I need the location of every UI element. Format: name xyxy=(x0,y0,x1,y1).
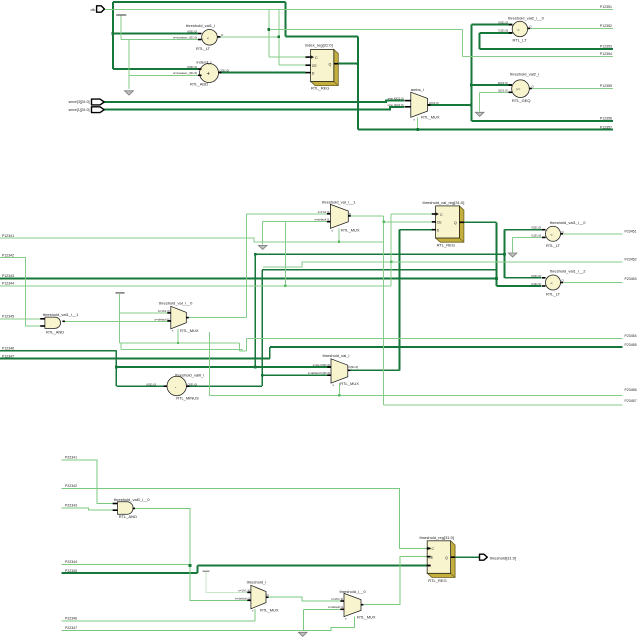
svg-text:P22346: P22346 xyxy=(65,617,77,621)
svg-text:P12357: P12357 xyxy=(600,125,612,129)
svg-text:CE: CE xyxy=(437,221,443,225)
svg-text:threshold_val2_i: threshold_val2_i xyxy=(510,72,539,77)
svg-text:threshold_val_reg[31:0]: threshold_val_reg[31:0] xyxy=(423,200,465,205)
svg-text:P22343: P22343 xyxy=(65,504,77,508)
svg-text:RTL_GEQ: RTL_GEQ xyxy=(512,98,531,103)
svg-text:b=default I1: b=default I1 xyxy=(155,317,171,321)
svg-text:P12347: P12347 xyxy=(2,354,14,358)
svg-text:P12341: P12341 xyxy=(2,234,14,238)
svg-text:I0[31:0]: I0[31:0] xyxy=(498,21,508,25)
svg-text:P12355: P12355 xyxy=(600,84,612,88)
svg-text:P12354: P12354 xyxy=(600,52,612,56)
svg-text:I1[31:0]: I1[31:0] xyxy=(531,233,541,237)
svg-text:CE: CE xyxy=(312,64,318,68)
svg-text:s=1'b1 I0: s=1'b1 I0 xyxy=(238,589,250,593)
svg-text:>=: >= xyxy=(516,87,521,92)
svg-text:C: C xyxy=(440,213,443,217)
svg-text:P12353: P12353 xyxy=(600,44,612,48)
svg-text:threshold_val1_i__1: threshold_val1_i__1 xyxy=(43,312,80,317)
svg-text:P12356: P12356 xyxy=(600,117,612,121)
svg-text:threshold_val1_i: threshold_val1_i xyxy=(186,23,215,28)
svg-text:RTL_MUX: RTL_MUX xyxy=(341,227,360,232)
svg-text:O[31:0]: O[31:0] xyxy=(220,68,230,72)
svg-text:RTL_MUX: RTL_MUX xyxy=(180,328,199,333)
svg-text:RTL_MUX: RTL_MUX xyxy=(260,608,279,613)
svg-text:P12352: P12352 xyxy=(600,24,612,28)
svg-text:s=1'b1 I0: s=1'b1 I0 xyxy=(318,210,330,214)
svg-text:RTL_AND: RTL_AND xyxy=(119,514,137,519)
svg-text:index3_i: index3_i xyxy=(197,59,212,64)
svg-text:threshold_i: threshold_i xyxy=(247,579,267,584)
svg-text:+: + xyxy=(207,72,211,78)
svg-text:P12346: P12346 xyxy=(2,347,14,351)
svg-text:O[31:0]: O[31:0] xyxy=(188,382,198,386)
svg-text:smce[1][31:0]: smce[1][31:0] xyxy=(68,108,89,112)
svg-text:P22342: P22342 xyxy=(65,484,77,488)
svg-text:I0[31:0]: I0[31:0] xyxy=(146,382,156,386)
svg-text:RTL_REG: RTL_REG xyxy=(311,86,329,91)
svg-text:index_reg[31:0]: index_reg[31:0] xyxy=(305,42,333,47)
svg-text:RTL_LT: RTL_LT xyxy=(513,38,528,43)
svg-text:P23456: P23456 xyxy=(625,388,637,392)
svg-text:s=te I0[31:0]: s=te I0[31:0] xyxy=(388,97,404,101)
svg-text:P23454: P23454 xyxy=(625,334,637,338)
svg-text:C: C xyxy=(315,56,318,60)
svg-text:Q: Q xyxy=(445,556,448,560)
svg-text:D: D xyxy=(312,71,315,75)
svg-text:smce[3][31:0]: smce[3][31:0] xyxy=(68,100,89,104)
svg-text:P22341: P22341 xyxy=(65,456,77,460)
svg-text:I0[31:0]: I0[31:0] xyxy=(498,81,508,85)
svg-text:RTL_MUX: RTL_MUX xyxy=(421,114,440,119)
svg-text:threshold_val1_i__0: threshold_val1_i__0 xyxy=(550,220,587,225)
svg-text:I1[31:0]: I1[31:0] xyxy=(498,29,508,33)
svg-text:RTL_AND: RTL_AND xyxy=(46,329,64,334)
svg-text:s=default I1: s=default I1 xyxy=(314,218,329,222)
svg-text:P12343: P12343 xyxy=(2,274,14,278)
svg-text:s=default I1: s=default I1 xyxy=(328,605,343,609)
svg-text:P23452: P23452 xyxy=(625,258,637,262)
svg-text:P23451: P23451 xyxy=(625,229,637,233)
svg-text:Q: Q xyxy=(329,63,332,67)
svg-text:s=default I1: s=default I1 xyxy=(235,597,250,601)
svg-text:clk: clk xyxy=(91,7,96,12)
svg-text:RTL_ADD: RTL_ADD xyxy=(190,82,208,87)
svg-text:I0[31:0]: I0[31:0] xyxy=(187,65,197,69)
svg-text:C: C xyxy=(432,547,435,551)
svg-text:threshold_i__0: threshold_i__0 xyxy=(340,589,367,594)
svg-text:I0[31:0]: I0[31:0] xyxy=(187,29,197,33)
svg-text:D: D xyxy=(437,228,440,232)
svg-text:ambs_i: ambs_i xyxy=(411,87,424,92)
svg-text:RTL_REG: RTL_REG xyxy=(428,578,446,583)
svg-text:RTL_LT: RTL_LT xyxy=(196,46,211,51)
svg-text:threshold_val0_i__0: threshold_val0_i__0 xyxy=(114,497,151,502)
svg-text:RTL_REG: RTL_REG xyxy=(437,243,455,248)
svg-text:s=1'b1 I0: s=1'b1 I0 xyxy=(331,597,343,601)
svg-text:threshold_val_i__1: threshold_val_i__1 xyxy=(322,199,356,204)
svg-text:P22347: P22347 xyxy=(65,626,77,630)
svg-text:threshold_reg[31:0]: threshold_reg[31:0] xyxy=(420,535,454,540)
svg-text:threshold_val_i__0: threshold_val_i__0 xyxy=(159,301,193,306)
svg-text:threshold[31:0]: threshold[31:0] xyxy=(490,555,516,560)
svg-text:Q: Q xyxy=(454,221,457,225)
svg-text:w=coeaser_r[31:0]: w=coeaser_r[31:0] xyxy=(173,71,197,75)
svg-text:I0[31:0]: I0[31:0] xyxy=(531,226,541,230)
svg-text:RTL_MINUS: RTL_MINUS xyxy=(176,396,199,401)
svg-text:O[31:0]: O[31:0] xyxy=(349,365,359,369)
svg-text:I0[31:0]: I0[31:0] xyxy=(531,274,541,278)
svg-text:P22344: P22344 xyxy=(65,560,77,564)
svg-text:I1[31:0]: I1[31:0] xyxy=(498,88,508,92)
svg-text:threshold_val_i: threshold_val_i xyxy=(323,353,350,358)
svg-text:threshold_val1_i__2: threshold_val1_i__2 xyxy=(550,269,587,274)
svg-text:I1[31:0]: I1[31:0] xyxy=(531,282,541,286)
svg-text:b=1'b1 I0: b=1'b1 I0 xyxy=(158,309,170,313)
svg-text:RTL_LT: RTL_LT xyxy=(546,243,561,248)
svg-text:threshold_val2_i__0: threshold_val2_i__0 xyxy=(508,15,545,20)
svg-text:s=default I1[31:0]: s=default I1[31:0] xyxy=(308,371,330,375)
svg-text:P23455: P23455 xyxy=(625,343,637,347)
svg-text:threshold_val0_i: threshold_val0_i xyxy=(175,372,204,377)
svg-text:P12342: P12342 xyxy=(2,254,14,258)
svg-text:P12344: P12344 xyxy=(2,282,14,286)
svg-text:s=te I1[31:0]: s=te I1[31:0] xyxy=(388,103,404,107)
svg-text:RTL_LT: RTL_LT xyxy=(546,292,561,297)
svg-text:w=coeaser_r[31:0]: w=coeaser_r[31:0] xyxy=(173,35,197,39)
svg-text:P23457: P23457 xyxy=(625,399,637,403)
svg-text:s=ste I0[31:0]: s=ste I0[31:0] xyxy=(313,363,331,367)
svg-text:P12351: P12351 xyxy=(600,5,612,9)
svg-text:RTL_MUX: RTL_MUX xyxy=(340,381,359,386)
svg-text:P22345: P22345 xyxy=(65,569,77,573)
svg-text:P23453: P23453 xyxy=(625,277,637,281)
svg-text:O[31:0]: O[31:0] xyxy=(429,101,439,105)
svg-text:RTL_MUX: RTL_MUX xyxy=(357,614,376,619)
svg-text:P12345: P12345 xyxy=(2,315,14,319)
